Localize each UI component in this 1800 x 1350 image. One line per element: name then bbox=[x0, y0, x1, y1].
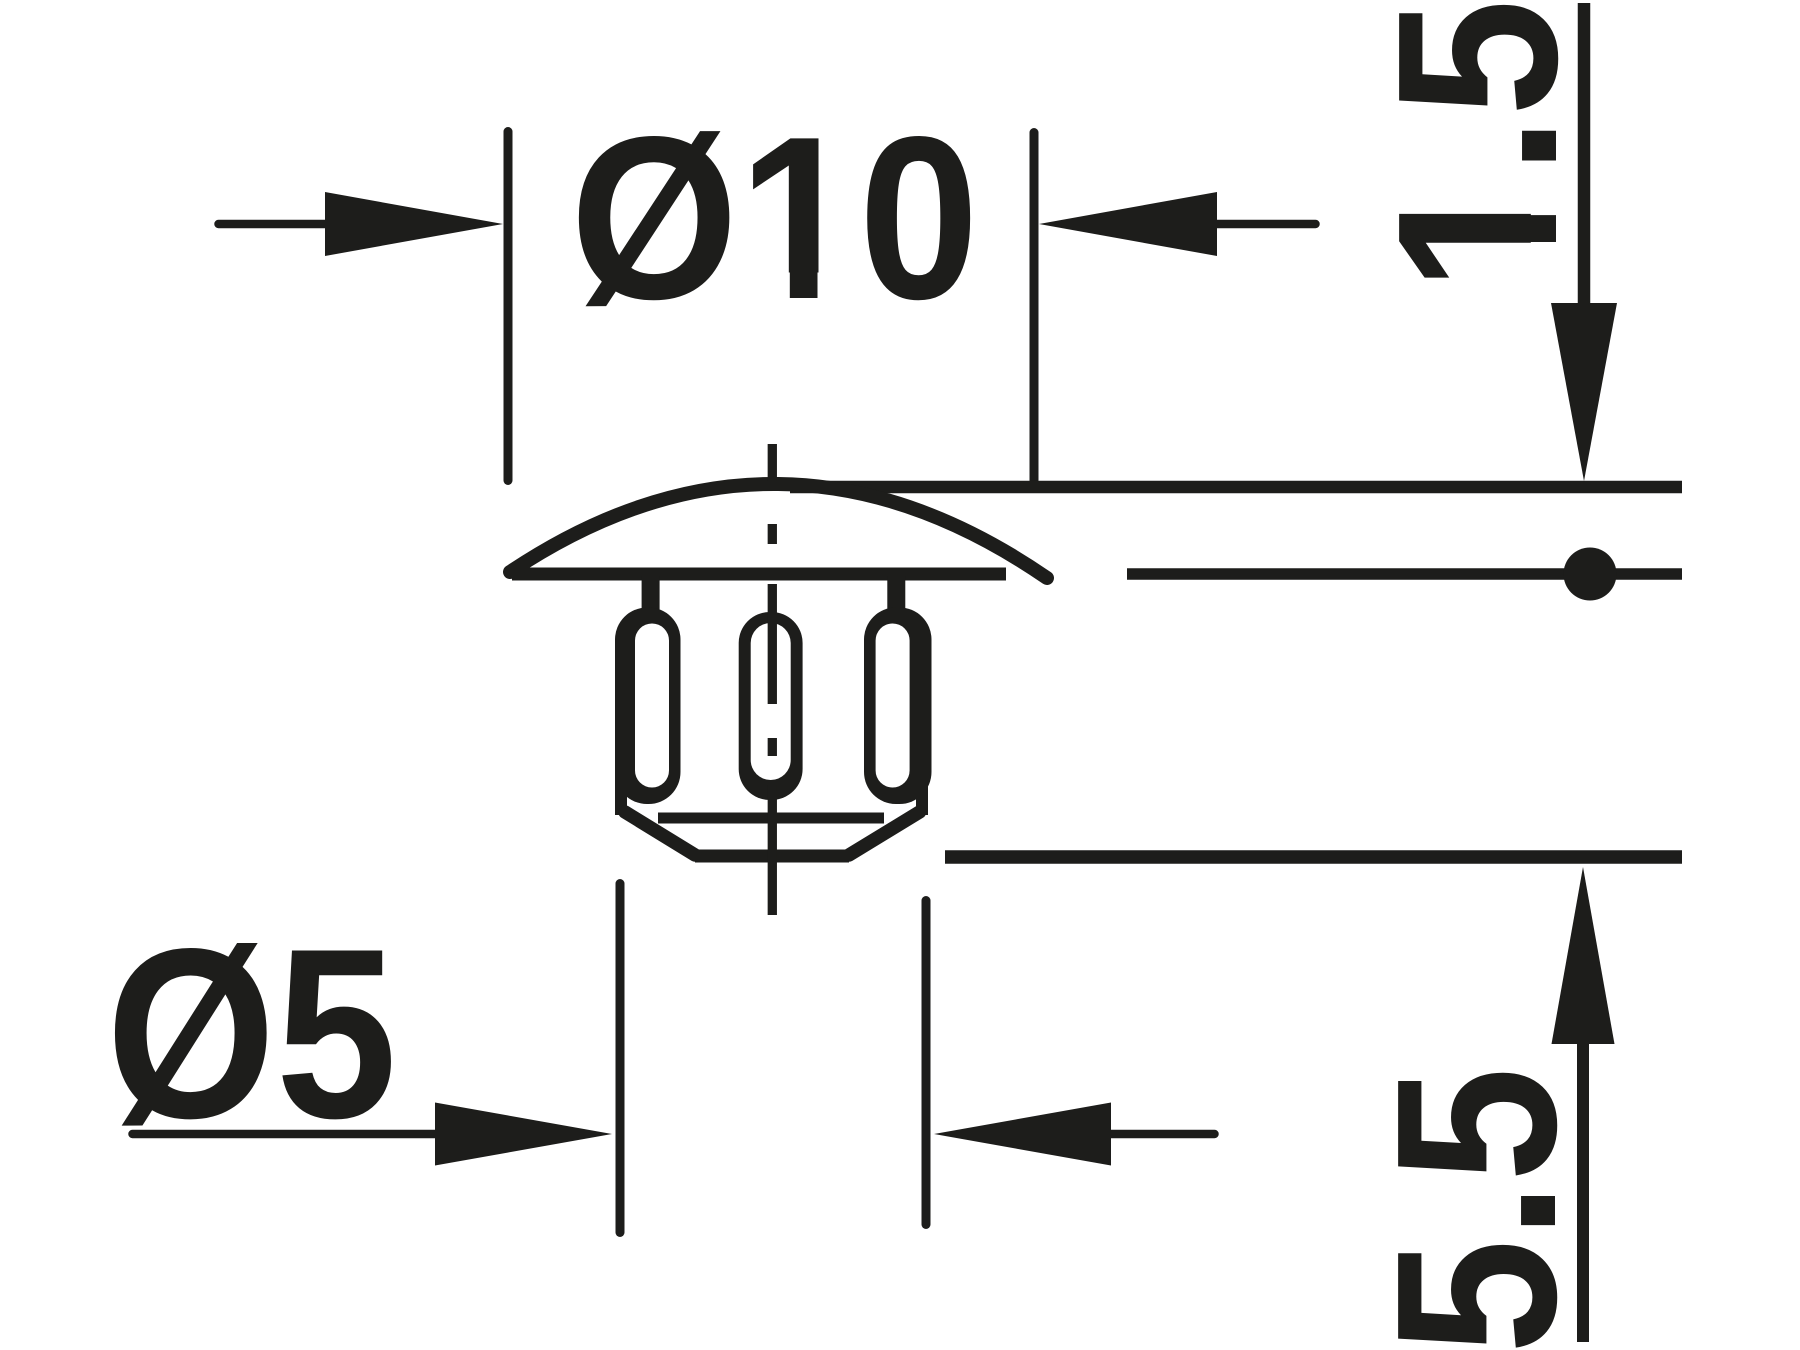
serif mask for digit 1 bbox=[749, 273, 790, 301]
extension line right (Ø10) bbox=[1030, 133, 1039, 481]
cap head underside line bbox=[512, 568, 1006, 581]
cap barb right (outer black) bbox=[864, 608, 932, 805]
cap slot right (white) bbox=[876, 624, 910, 788]
cap outer wall right bbox=[916, 700, 928, 815]
cap outer wall left bbox=[615, 700, 627, 815]
cap head dome arc bbox=[510, 484, 1047, 578]
extension line right (Ø5) bbox=[922, 901, 931, 1225]
cap barb middle (outer black) bbox=[739, 612, 803, 800]
cap neck left bbox=[642, 576, 660, 616]
bottom surface line bbox=[945, 850, 1682, 864]
extension line left (Ø10) bbox=[504, 132, 513, 481]
centerline dash 1 bbox=[768, 444, 777, 481]
dimension arrow right (Ø5) bbox=[934, 1103, 1215, 1166]
dimension arrow left (Ø5) bbox=[133, 1103, 613, 1166]
extension line left (Ø5) bbox=[616, 884, 625, 1233]
cap slot middle (white) bbox=[751, 623, 791, 780]
dimension label 1.5 (rotated) bbox=[1351, 0, 1605, 292]
centerline dot 1 bbox=[768, 524, 777, 544]
cap barb left (outer black) bbox=[615, 608, 681, 805]
svg-text:5.5: 5.5 bbox=[1350, 1067, 1604, 1350]
cap bottom edge line bbox=[695, 850, 849, 863]
cap inner bottom line bbox=[658, 813, 884, 824]
dimension line 1.5 (vertical, arrow down) bbox=[1551, 3, 1617, 481]
cap bottom chamfer left bbox=[625, 812, 695, 855]
dimension arrow left (Ø10) bbox=[219, 192, 504, 256]
svg-text:Ø5: Ø5 bbox=[106, 899, 397, 1169]
centerline dash 2 bbox=[768, 584, 777, 704]
middle surface line bbox=[1127, 568, 1682, 580]
centerline dash 3 bbox=[768, 785, 777, 915]
top surface line bbox=[790, 481, 1682, 494]
centerline dot 2 bbox=[768, 738, 777, 756]
serif mask for digit 1 bbox=[1531, 242, 1559, 282]
cap slot left (white) bbox=[635, 624, 669, 788]
dimension arrow right (Ø10) bbox=[1039, 192, 1316, 256]
dimension line 5.5 (vertical, arrow up) bbox=[1552, 867, 1615, 1342]
cap bottom chamfer right bbox=[849, 812, 920, 855]
junction dot on middle surface line bbox=[1564, 548, 1617, 601]
cap neck right bbox=[887, 576, 905, 616]
svg-text:Ø10: Ø10 bbox=[570, 89, 979, 348]
svg-text:1.5: 1.5 bbox=[1351, 0, 1605, 292]
